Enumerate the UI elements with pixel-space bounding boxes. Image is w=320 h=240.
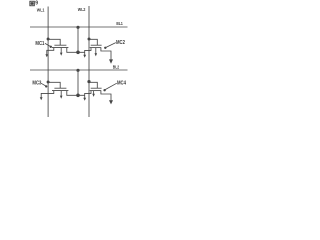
MC1 gate bar xyxy=(54,44,66,46)
leader dot MC2 xyxy=(104,47,106,49)
MC2 substrate tap xyxy=(95,48,97,54)
MC3 channel bar xyxy=(52,90,68,92)
word line WL1 xyxy=(47,7,49,118)
wire MC4 drain xyxy=(101,91,111,101)
svg-text:BL1: BL1 xyxy=(116,21,123,26)
leader dot MC4 xyxy=(103,89,105,91)
stub BL2 to MC3 drain xyxy=(77,70,79,95)
wire MC1 source xyxy=(47,48,54,55)
arrow MC1 substrate xyxy=(60,53,63,56)
memory cell MC4 (bottom-right) xyxy=(83,80,126,104)
svg-text:WL2: WL2 xyxy=(78,7,86,12)
MC1 substrate tap xyxy=(60,48,62,53)
junction dot MC2 gate/WL2 xyxy=(88,38,91,41)
arrow MC4 drain xyxy=(109,100,113,104)
MC4 gate bar xyxy=(91,87,102,89)
svg-text:MC3: MC3 xyxy=(32,80,41,86)
arrow MC3 substrate xyxy=(60,96,63,99)
wire MC1 gate xyxy=(48,39,60,45)
arrow MC4 substrate xyxy=(92,94,95,97)
MC1 channel bar xyxy=(52,47,68,49)
leader MC2 xyxy=(106,43,116,48)
wire MC4 gate xyxy=(89,82,97,88)
MC4 channel bar xyxy=(90,90,102,92)
MC3 substrate tap xyxy=(60,91,62,96)
leader dot MC1 xyxy=(50,46,52,48)
word line WL2 xyxy=(88,6,90,117)
wire MC2 source xyxy=(85,48,91,55)
memory cell MC2 (top-right) xyxy=(83,38,125,64)
figure title 図9 xyxy=(30,1,38,7)
arrow MC2 substrate xyxy=(95,53,98,56)
wire MC3 gate xyxy=(48,82,60,88)
svg-text:WL1: WL1 xyxy=(37,7,45,12)
leader MC4 xyxy=(105,83,117,89)
stub BL1 to MC1 drain xyxy=(77,27,79,52)
arrow MC2 source xyxy=(83,55,86,58)
MC4 substrate tap xyxy=(93,91,95,94)
arrow MC4 source xyxy=(83,98,86,101)
svg-text:MC2: MC2 xyxy=(116,40,125,46)
junction dot BL2/stub xyxy=(76,69,79,72)
wire MC3 drain xyxy=(67,91,85,96)
wire MC4 source xyxy=(85,91,91,98)
MC3 gate bar xyxy=(54,87,66,89)
MC2 gate bar xyxy=(91,44,102,46)
leader MC1 xyxy=(45,43,50,46)
wire MC2 gate xyxy=(89,39,97,45)
junction dot MC1 gate/WL1 xyxy=(47,38,50,41)
junction dot stub/MC3 drain xyxy=(76,94,80,98)
junction dot MC4 gate/WL2 xyxy=(87,80,90,83)
svg-text:BL2: BL2 xyxy=(113,64,120,69)
bit line BL2 xyxy=(30,69,128,71)
wire MC3 source xyxy=(41,91,54,98)
junction dot stub/MC1 drain xyxy=(76,51,80,55)
svg-text:9: 9 xyxy=(35,1,38,7)
memory cell MC1 (top-left) xyxy=(35,38,84,58)
svg-text:MC4: MC4 xyxy=(117,80,126,86)
wire MC1 drain xyxy=(67,48,85,53)
arrow MC1 source xyxy=(45,54,48,57)
leader dot MC3 xyxy=(45,85,47,87)
svg-text:MC1: MC1 xyxy=(35,41,44,47)
arrow MC2 drain to BL2 xyxy=(109,59,113,63)
junction dot BL1/stub xyxy=(76,26,79,29)
bit line BL1 xyxy=(30,26,128,28)
wire MC2 drain xyxy=(101,48,111,60)
memory cell MC3 (bottom-left) xyxy=(32,80,84,100)
MC2 channel bar xyxy=(90,47,102,49)
arrow MC3 source xyxy=(40,97,43,100)
junction dot MC3 gate/WL1 xyxy=(47,81,50,84)
leader MC3 xyxy=(41,83,46,86)
